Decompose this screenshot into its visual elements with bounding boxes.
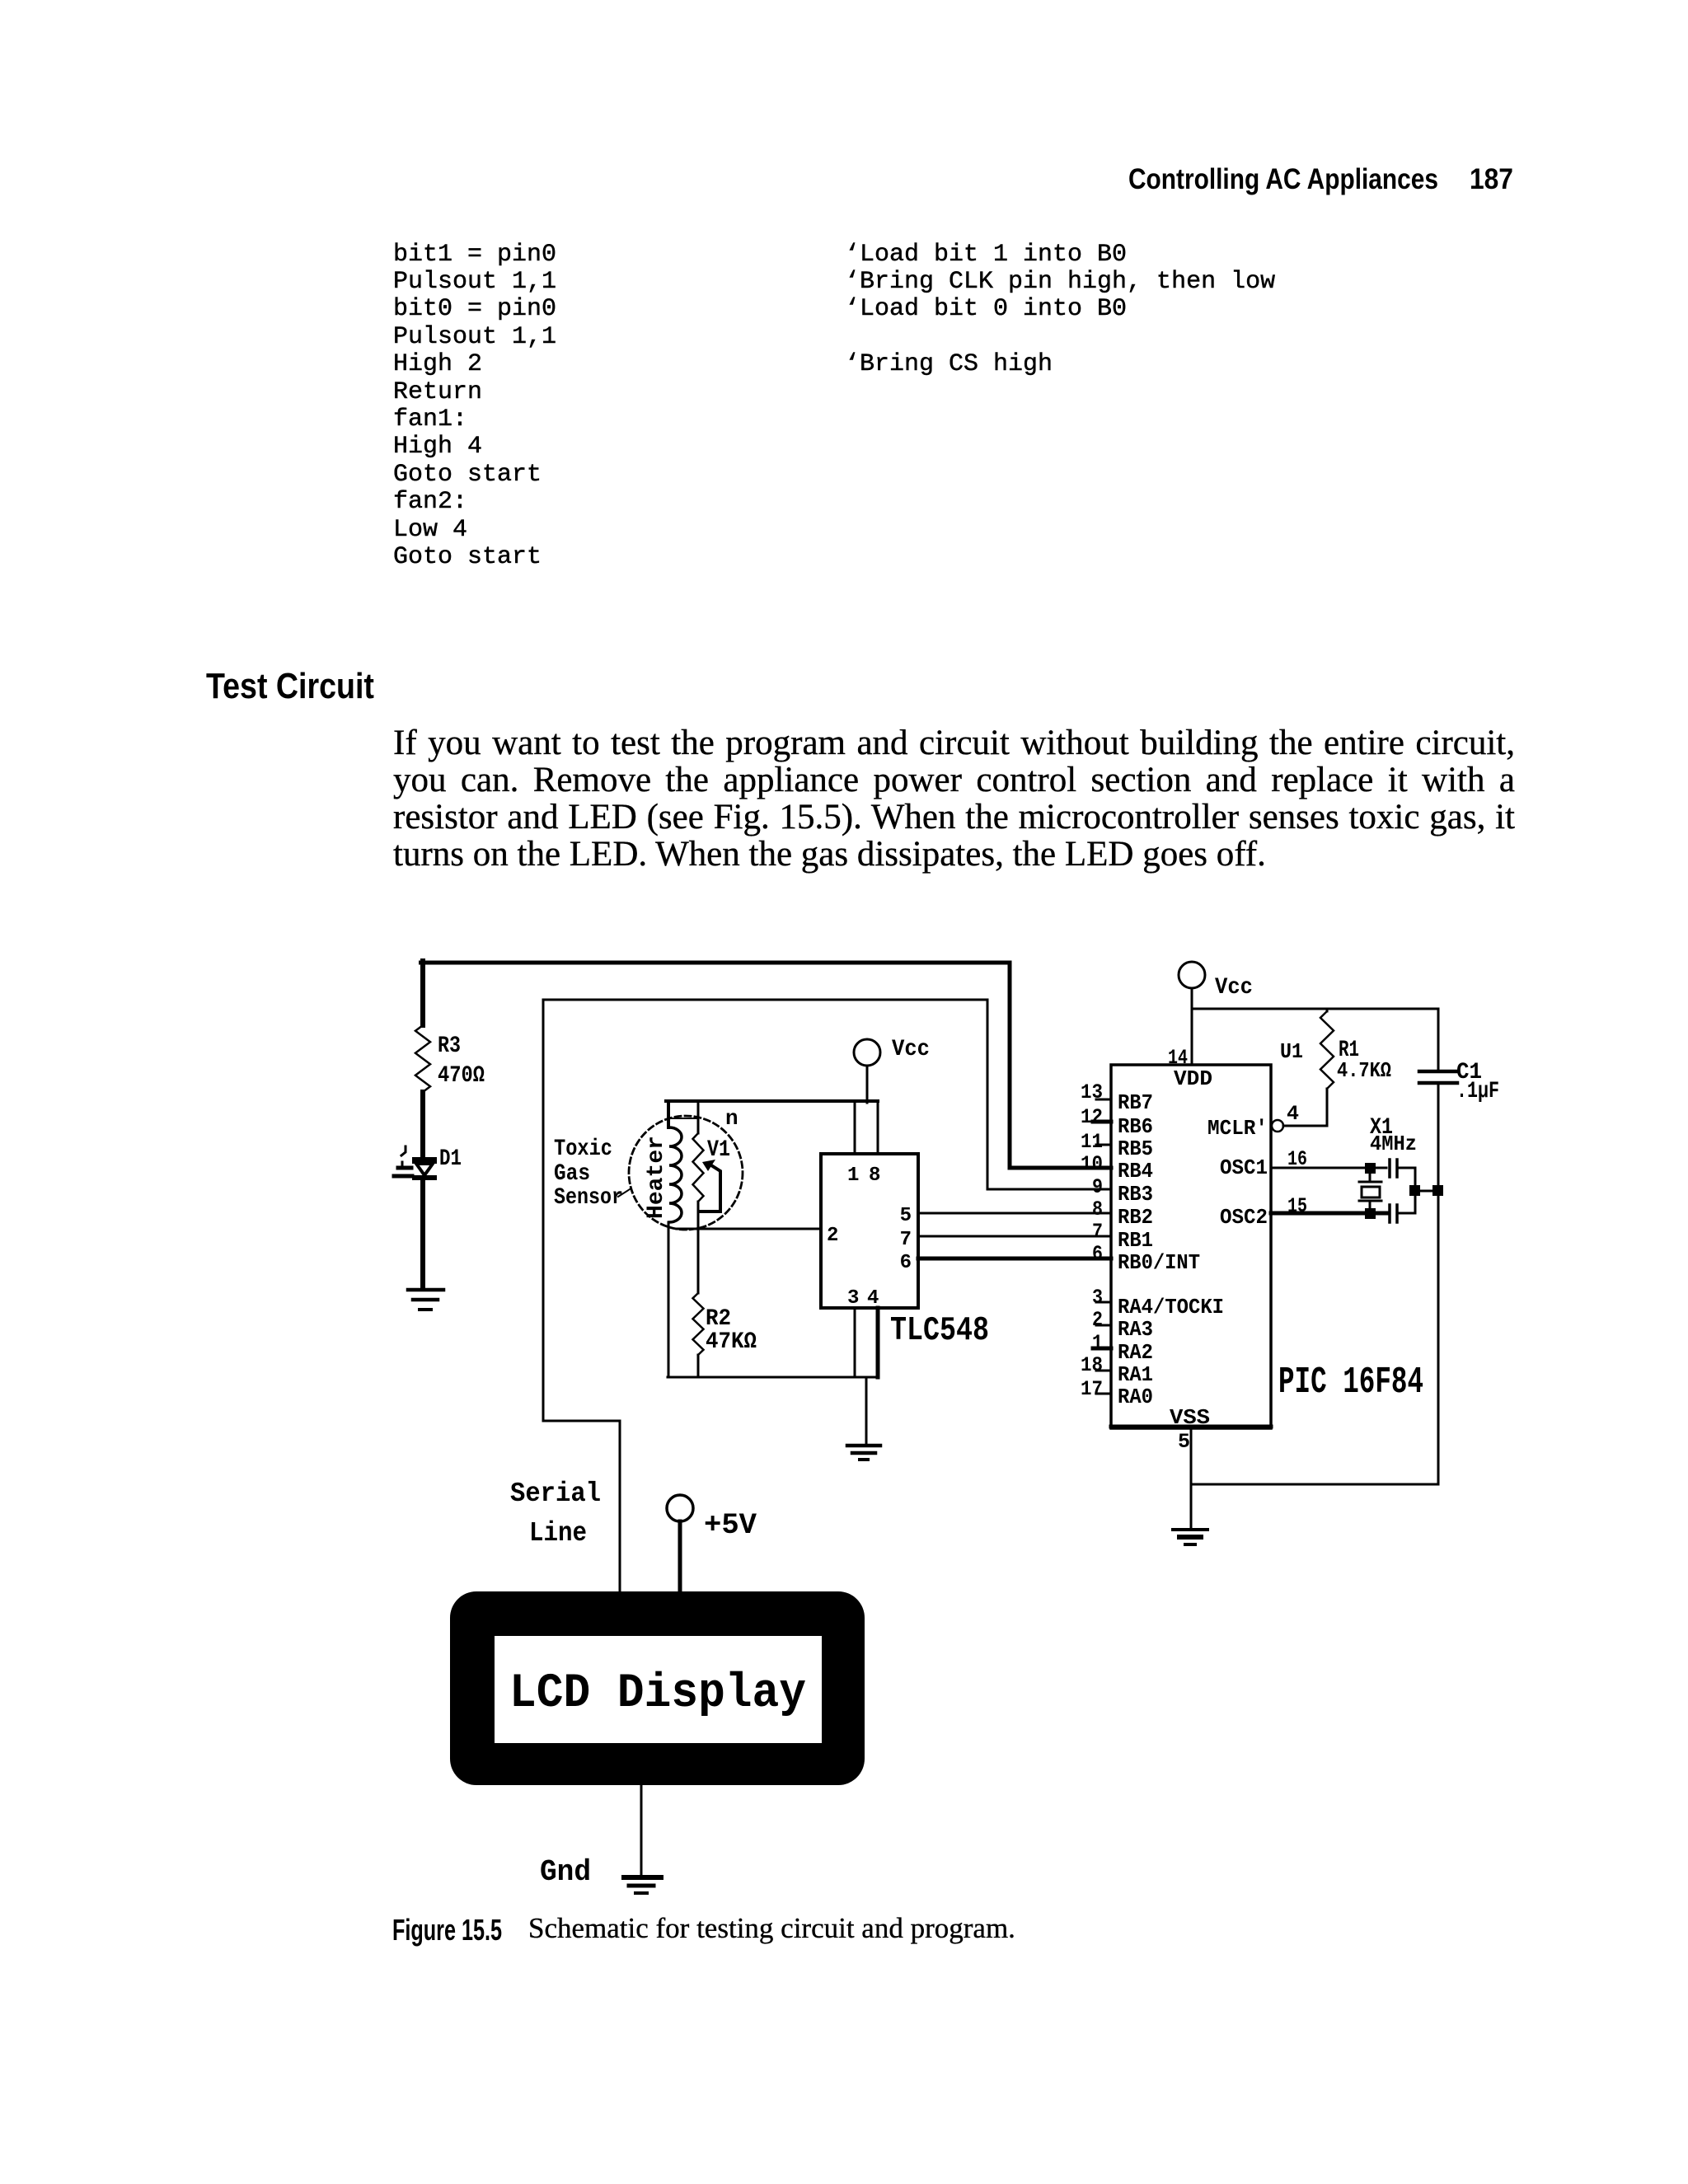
wire: R2 bottom lead [697, 1355, 700, 1377]
svg-text:RB1: RB1 [1118, 1228, 1153, 1253]
svg-text:10: 10 [1081, 1152, 1103, 1176]
svg-text:Gnd: Gnd [540, 1855, 591, 1889]
wire: R3 to D1 [420, 1092, 425, 1159]
wire: V1 lower lead through pin2 node to R2 [697, 1202, 700, 1293]
ground (below TLC548) [847, 1446, 880, 1460]
page number 187 [1470, 163, 1513, 196]
wire: TLC548 pin 4 to bottom rail [876, 1308, 880, 1377]
resistor R2 [693, 1293, 757, 1355]
svg-text:6: 6 [1092, 1242, 1103, 1266]
wire: TLC548 pin 2 input [677, 1228, 821, 1230]
TLC548 pin number labels [827, 1165, 912, 1310]
svg-text:Gas: Gas [554, 1161, 590, 1187]
svg-text:RB3: RB3 [1118, 1182, 1153, 1207]
svg-text:3: 3 [1092, 1286, 1103, 1310]
svg-text:Sensor: Sensor [554, 1185, 623, 1211]
wire: VSS to ground [1191, 1428, 1438, 1528]
LCD Display module [450, 1591, 865, 1785]
wire: R1 to MCLR [1283, 1009, 1327, 1126]
svg-text:Serial: Serial [510, 1479, 601, 1509]
capacitor C1 [1419, 1009, 1499, 1484]
ADC U2 TLC548 body [821, 1154, 918, 1308]
svg-text:11: 11 [1081, 1130, 1103, 1154]
svg-text:18: 18 [1081, 1353, 1103, 1377]
svg-text:U1: U1 [1280, 1039, 1303, 1064]
resistor R3 [415, 1025, 485, 1092]
wire: TLC548 pin 7 to PIC RB1 [918, 1235, 1111, 1238]
svg-text:1: 1 [847, 1165, 859, 1187]
wire: crystal caps common leg [1414, 1168, 1417, 1213]
ground (below D1) [408, 1290, 443, 1310]
wire: OSC2 to crystal network [1271, 1212, 1386, 1216]
wire: TLC548 pin 5 to PIC RB2 [918, 1212, 1111, 1215]
section heading [206, 666, 374, 707]
wire: D1 to ground [420, 1180, 425, 1288]
wire: OSC1 to crystal network [1271, 1167, 1386, 1169]
svg-text:4MHz: 4MHz [1370, 1132, 1417, 1156]
svg-text:8: 8 [869, 1165, 880, 1187]
ground (VSS) [1173, 1530, 1207, 1544]
svg-text:RB7: RB7 [1118, 1090, 1153, 1115]
PIC left pin stubs [1093, 1099, 1111, 1394]
wire: LCD to ground [640, 1785, 643, 1875]
Vcc terminal (TLC548) [854, 1037, 930, 1103]
svg-text:R2: R2 [706, 1306, 731, 1332]
label: MCLR pin 4 [1207, 1102, 1299, 1141]
figure caption [392, 1913, 502, 1947]
svg-text:Vcc: Vcc [1215, 975, 1253, 1001]
ground (LCD) [624, 1877, 661, 1893]
svg-text:8: 8 [1092, 1197, 1103, 1221]
svg-text:Heater: Heater [644, 1136, 669, 1219]
microcontroller PIC 16F84 body [1111, 1065, 1271, 1428]
svg-text:Vcc: Vcc [892, 1037, 930, 1062]
code block left column [393, 241, 556, 572]
svg-text:.1μF: .1μF [1456, 1079, 1499, 1104]
heater coil inside sensor [668, 1101, 682, 1377]
svg-text:+5V: +5V [704, 1509, 757, 1542]
svg-text:6: 6 [900, 1252, 912, 1274]
capacitor (OSC1 load) [1390, 1160, 1415, 1177]
+5V terminal [667, 1495, 757, 1591]
svg-text:13: 13 [1081, 1080, 1103, 1104]
label: VDD / pin 14 [1168, 1046, 1212, 1091]
wire: TLC548 pin 1 lead [854, 1101, 856, 1154]
svg-text:RB6: RB6 [1118, 1114, 1153, 1139]
wire: serial line net (sensor loop to LCD) [543, 1000, 1111, 1591]
label: Toxic Gas Sensor [554, 1137, 630, 1211]
wire: Vcc rail to R1 and C1 [1192, 1008, 1438, 1010]
svg-text:OSC2: OSC2 [1220, 1205, 1268, 1230]
svg-text:RB4: RB4 [1118, 1159, 1153, 1183]
wire: sensor top rail to TLC548 pin 8 [666, 1099, 878, 1103]
svg-text:5: 5 [1178, 1430, 1190, 1454]
crystal X1 4MHz [1359, 1115, 1417, 1212]
V1 wiper arrow [699, 1160, 720, 1212]
code block comment column [845, 241, 1275, 379]
svg-text:RA2: RA2 [1118, 1340, 1153, 1365]
svg-text:2: 2 [1092, 1308, 1103, 1332]
wire: R3 top lead [420, 961, 425, 1025]
svg-text:17: 17 [1081, 1377, 1103, 1401]
wire: bottom rail to ground [865, 1377, 868, 1444]
svg-text:RA0: RA0 [1118, 1385, 1153, 1409]
svg-text:RA4/TOCKI: RA4/TOCKI [1118, 1295, 1224, 1319]
svg-text:7: 7 [900, 1229, 912, 1251]
svg-text:R3: R3 [438, 1033, 461, 1059]
svg-text:LCD Display: LCD Display [509, 1667, 806, 1721]
node: OSC2 junction [1365, 1208, 1376, 1219]
node: junction on C1 net [1432, 1185, 1443, 1196]
label: OSC1 pin 16 [1220, 1147, 1307, 1180]
svg-text:4.7KΩ: 4.7KΩ [1337, 1058, 1391, 1083]
svg-text:12: 12 [1081, 1105, 1103, 1129]
Vcc terminal (PIC) [1179, 962, 1253, 1001]
svg-text:PIC 16F84: PIC 16F84 [1278, 1361, 1423, 1404]
node: OSC1 junction [1365, 1163, 1376, 1174]
svg-text:RB0/INT: RB0/INT [1118, 1250, 1200, 1275]
svg-text:5: 5 [900, 1205, 912, 1227]
svg-text:9: 9 [1092, 1175, 1103, 1199]
wire: TLC548 pin 8 lead [877, 1101, 879, 1154]
svg-text:OSC1: OSC1 [1220, 1155, 1268, 1180]
label: VSS / pin 5 [1170, 1405, 1210, 1454]
svg-text:Line: Line [529, 1518, 587, 1549]
wire: common leg to C1 net [1415, 1190, 1438, 1193]
variable sense resistor V1 [670, 1101, 730, 1202]
svg-text:Toxic: Toxic [554, 1137, 612, 1162]
svg-text:RB5: RB5 [1118, 1137, 1153, 1161]
resistor R1 [1280, 1011, 1391, 1089]
svg-text:4: 4 [1287, 1102, 1299, 1126]
wire: +V top rail from R3 to RB4 [421, 963, 1112, 1168]
svg-text:470Ω: 470Ω [438, 1063, 485, 1089]
svg-text:7: 7 [1092, 1220, 1103, 1244]
wire: TLC548 pin 6 to PIC RB0/INT [918, 1257, 1111, 1261]
PIC port pin name labels [1118, 1090, 1224, 1409]
svg-text:n: n [725, 1106, 738, 1131]
svg-text:TLC548: TLC548 [890, 1312, 989, 1350]
PIC left pin numbers [1081, 1080, 1103, 1401]
node: caps common junction [1409, 1185, 1420, 1196]
svg-text:RA1: RA1 [1118, 1362, 1153, 1387]
svg-text:VSS: VSS [1170, 1405, 1210, 1430]
svg-text:3: 3 [847, 1287, 859, 1310]
svg-text:RA3: RA3 [1118, 1317, 1153, 1342]
wire: sensor loop bottom rail [668, 1376, 878, 1379]
MCLR inverter bubble [1272, 1120, 1283, 1132]
toxic gas sensor V1 (dashed circle) [629, 1116, 743, 1230]
running head [1128, 163, 1438, 196]
label: OSC2 pin 15 [1220, 1194, 1307, 1230]
svg-text:V1: V1 [707, 1137, 730, 1163]
svg-text:47KΩ: 47KΩ [706, 1329, 757, 1355]
svg-text:MCLR': MCLR' [1207, 1116, 1268, 1141]
svg-text:D1: D1 [439, 1146, 462, 1172]
body paragraph [393, 725, 1515, 874]
wire: Vcc to VDD pin 14 [1191, 988, 1193, 1065]
LED D1 [394, 1146, 462, 1180]
wire: TLC548 pin 3 to bottom rail [854, 1308, 856, 1377]
label: Serial Line [510, 1479, 601, 1549]
svg-text:1: 1 [1092, 1331, 1103, 1355]
svg-text:RB2: RB2 [1118, 1205, 1153, 1230]
svg-text:2: 2 [827, 1225, 838, 1247]
capacitor (OSC2 load) [1390, 1205, 1415, 1222]
svg-text:VDD: VDD [1174, 1066, 1212, 1091]
